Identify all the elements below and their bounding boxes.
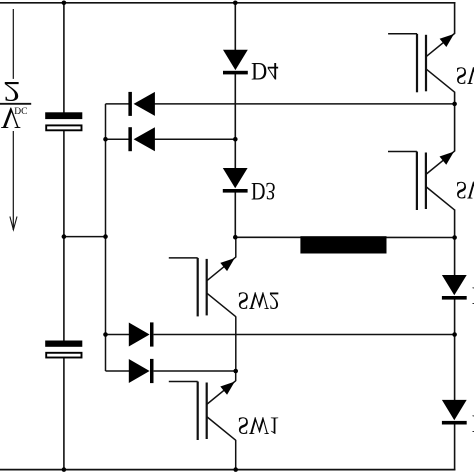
label SW3 (clipped at edge) <box>456 176 474 203</box>
wire: SW4 emitter down through node to SW3 collector <box>454 93 456 152</box>
wire: right rail top corner to SW4 collector <box>454 2 456 33</box>
junction right rail / clamp line at SW4 emitter <box>452 102 457 107</box>
junction output node left <box>233 235 238 240</box>
wire: D2 cathode down past node to D1 anode <box>454 299 456 400</box>
wire: stub clamp rail to D7 anode <box>106 334 130 336</box>
Vdc/2 dimension line upper segment <box>12 9 14 79</box>
wire: SW1 emitter to bottom rail <box>235 440 237 470</box>
wire: D4 branch from top rail <box>234 3 236 50</box>
junction clamp rail / neutral link <box>103 234 108 239</box>
clamp diode D7 <box>129 322 154 346</box>
wire: bottom DC- rail <box>0 469 455 471</box>
junction bottom rail / capacitor branch <box>62 467 67 472</box>
Vdc/2 dimension arrowhead <box>10 217 17 230</box>
junction right rail / D7 clamp line <box>452 332 457 337</box>
junction D4-D3 / D6 clamp line <box>233 137 238 142</box>
wire: clamp line from D7 cathode to right rail node <box>154 334 455 336</box>
label Vdc/2 denominator V <box>1 101 21 135</box>
label D3 <box>251 177 276 204</box>
label SW2 <box>238 286 280 313</box>
clamp diode D8 <box>129 359 154 383</box>
label D2 (clipped at edge) <box>472 281 474 308</box>
wire: stub clamp rail to D5 cathode <box>106 103 130 105</box>
svg-text:SW4: SW4 <box>456 61 474 88</box>
wire: D1 cathode down to bottom rail <box>454 424 456 470</box>
capacitor C2 bottom plate <box>46 353 81 358</box>
transistor SW1 <box>169 381 236 441</box>
wire: SW2 collector riser from output line <box>235 237 237 257</box>
wire: C1 bottom to neutral node to C2 top <box>63 131 65 341</box>
svg-text:SW3: SW3 <box>456 176 474 203</box>
wire: C2 bottom to bottom rail <box>63 358 65 470</box>
wire: clamp line from D5 anode to SW4-SW3 node <box>155 103 455 105</box>
diode D2 <box>442 275 467 300</box>
junction bottom rail / SW1 emitter <box>233 467 238 472</box>
wire: stub clamp rail to D8 anode <box>106 370 130 372</box>
wire: neutral link between capacitor midpoint and clamp rail <box>64 236 106 238</box>
transistor SW2 <box>169 257 236 317</box>
transistor SW3 <box>388 151 455 211</box>
label D4 <box>251 57 279 84</box>
label Vdc/2 subscript DC <box>14 105 27 115</box>
wire: clamp rail vertical <box>105 104 107 371</box>
wire: clamp line from D8 cathode to SW2-SW1 node <box>154 370 236 372</box>
junction SW2 emitter / SW1 collector / D8 line <box>233 369 238 374</box>
diode D3 <box>223 168 248 193</box>
load block on output line <box>300 236 386 253</box>
wire: D3 cathode to output node <box>234 192 236 237</box>
label SW4 (clipped at edge) <box>456 61 474 88</box>
label SW1 <box>238 411 280 438</box>
wire: clamp line from D6 anode to D4-D3 node <box>155 138 236 140</box>
junction top rail / D4 branch <box>233 1 238 6</box>
wire: stub clamp rail to D6 cathode <box>106 138 130 140</box>
label Vdc/2 numerator 2 <box>3 75 20 107</box>
wire: top DC+ rail <box>0 2 455 4</box>
wire: capacitor branch from top rail to C1 <box>63 3 65 113</box>
capacitor C1 bottom plate <box>46 125 81 130</box>
svg-text:DC: DC <box>14 105 27 115</box>
wire: SW2 emitter to SW1 collector node <box>235 316 237 371</box>
svg-text:D4: D4 <box>251 57 279 84</box>
clamp diode D5 <box>128 92 155 116</box>
junction clamp rail / D7 line <box>103 332 108 337</box>
transistor SW4 <box>388 33 455 93</box>
svg-text:SW2: SW2 <box>238 286 280 313</box>
wire: output line to right rail <box>235 236 454 238</box>
wire: D4 cathode to D3 anode <box>234 74 236 168</box>
fraction bar of Vdc/2 <box>0 103 31 105</box>
diode D4 <box>223 50 248 75</box>
clamp diode D6 <box>128 127 155 151</box>
svg-text:SW1: SW1 <box>238 411 280 438</box>
capacitor C2 top plate <box>45 341 82 347</box>
junction output node right <box>452 235 457 240</box>
wire: SW3 emitter down to output node and D2 anode <box>454 210 456 276</box>
label D1 (clipped at edge) <box>472 409 474 436</box>
junction capacitor midpoint <box>62 234 67 239</box>
Vdc/2 dimension line lower segment <box>12 131 14 230</box>
diode D1 <box>442 400 467 425</box>
wire: SW1 collector stub <box>235 371 237 381</box>
junction clamp rail / D6 line <box>103 137 108 142</box>
svg-text:D3: D3 <box>251 177 276 204</box>
capacitor C1 top plate <box>45 112 82 119</box>
junction top rail / capacitor branch <box>62 1 67 6</box>
